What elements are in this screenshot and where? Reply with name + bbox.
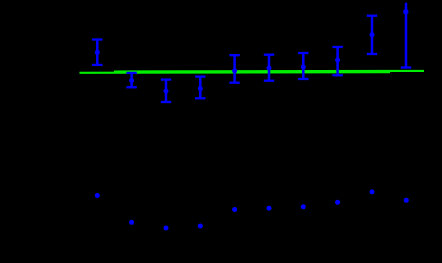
- green fit line upper segment: [114, 70, 424, 73]
- green fit line lower segment: [80, 71, 391, 74]
- residual point 5: [232, 207, 237, 212]
- error bar 1: [92, 40, 102, 65]
- error bar 4: [195, 77, 205, 99]
- residual point 8: [335, 200, 340, 205]
- residual point 1: [95, 193, 100, 198]
- error bar 8: [332, 47, 342, 75]
- error bar 10 (tall, extends past top): [401, 4, 411, 68]
- error bar 9: [367, 16, 377, 54]
- error bar 6: [264, 55, 274, 81]
- error bar 3: [161, 80, 171, 102]
- error bar 2: [126, 73, 136, 87]
- residual point 3: [164, 226, 169, 231]
- residual point 6: [267, 206, 272, 211]
- error bar 7: [298, 53, 308, 79]
- residual point 7: [301, 204, 306, 209]
- residual point 2: [129, 220, 134, 225]
- residual point 9: [370, 189, 375, 194]
- residual point 4: [198, 224, 203, 229]
- residual point 10: [404, 198, 409, 203]
- error bar 5: [229, 55, 239, 82]
